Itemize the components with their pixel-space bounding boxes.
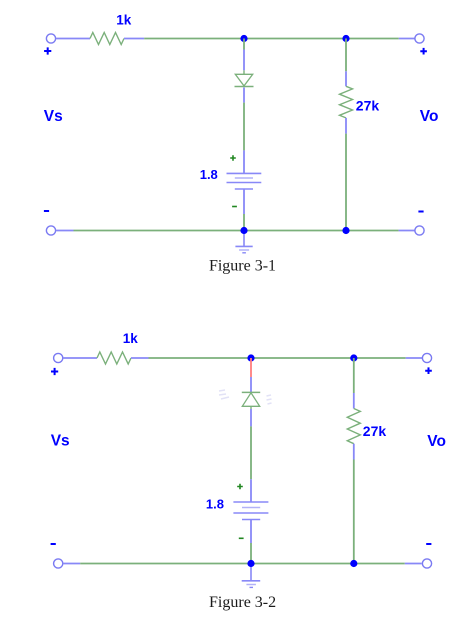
battery V1 plate 3 (long) — [227, 182, 262, 184]
terminal TR fig3-1 — [415, 34, 424, 43]
label + at TL terminal fig3-1 — [44, 47, 51, 54]
wire: TR terminal stub — [399, 38, 415, 40]
diode D2 anode stub — [250, 406, 252, 409]
resistor R2 27k body — [340, 86, 353, 118]
wire: D2 to V2 (green) — [250, 426, 252, 479]
label + at TR terminal fig3-1 — [420, 48, 427, 55]
terminal BL fig3-1 — [46, 226, 55, 235]
wire: bottom bus left — [74, 230, 245, 232]
node F (R4 junction) — [350, 354, 357, 361]
svg-text:Vo: Vo — [420, 108, 439, 125]
wire: TL terminal to R1 left lead — [56, 38, 90, 40]
wire: R2 bottom lead (blue) — [345, 118, 347, 134]
wire: D1 anode lead (blue) — [243, 50, 245, 71]
svg-text:Vs: Vs — [44, 108, 63, 125]
battery V2 plate 4 (short) — [242, 519, 260, 521]
svg-text:Vo: Vo — [427, 433, 446, 450]
wire: BL terminal stub fig3-2 — [63, 563, 80, 565]
svg-text:1.8: 1.8 — [206, 497, 224, 512]
label - at BR terminal fig3-2 — [426, 543, 431, 545]
wire: BR terminal stub fig3-2 — [405, 563, 422, 565]
wire: V2 top lead (blue) — [250, 479, 252, 502]
ground bar 2 fig3-2 — [246, 584, 256, 586]
svg-text:1.8: 1.8 — [200, 167, 218, 182]
terminal BR fig3-1 — [415, 226, 424, 235]
resistor R1 1k body — [90, 33, 124, 45]
node A (R1/D1 junction) — [240, 35, 247, 42]
resistor R3 1k body — [97, 352, 131, 364]
wire: V2 bottom lead (blue) — [250, 520, 252, 544]
wire: V1 to node D (green) — [243, 214, 245, 231]
ghost text right of D2 — [267, 395, 272, 404]
ground bar 2 fig3-1 — [239, 249, 249, 251]
battery V2 plate 1 (long) — [233, 501, 268, 503]
wire: node E to node F — [251, 357, 354, 359]
svg-text:Vs: Vs — [51, 433, 70, 450]
svg-text:27k: 27k — [363, 423, 387, 439]
wire: node F down (green) — [353, 358, 355, 393]
ground bar 3 fig3-2 — [250, 586, 254, 588]
resistor R4 27k body — [347, 409, 360, 444]
wire: node E down (red net) — [250, 358, 252, 377]
wire: R4 top lead (blue) — [353, 393, 355, 409]
wire: bottom bus mid fig3-2 — [251, 563, 354, 565]
terminal BL fig3-2 — [54, 559, 63, 568]
node G (R4/bottom bus junction) — [350, 560, 357, 567]
svg-text:Figure 3-2: Figure 3-2 — [209, 594, 276, 611]
wire: TL terminal to R3 left lead — [63, 357, 97, 359]
wire: D2 anode lead (blue) — [250, 409, 252, 426]
label - of battery V2 — [239, 537, 244, 539]
svg-text:1k: 1k — [123, 331, 139, 346]
svg-text:27k: 27k — [356, 97, 380, 113]
wire: V1 top lead (blue) — [243, 150, 245, 173]
diode D2 cathode bar — [242, 391, 260, 393]
wire: D1 cathode lead (blue) — [243, 88, 245, 103]
label - at BR terminal fig3-1 — [418, 211, 423, 213]
ground bar 1 fig3-1 — [235, 245, 252, 247]
wire: TR terminal stub fig3-2 — [406, 357, 423, 359]
battery V1 plate 1 (long) — [227, 172, 262, 174]
terminal BR fig3-2 — [422, 559, 431, 568]
wire: D2 cathode lead (blue) — [250, 377, 252, 392]
node E (R3/D2 junction) — [247, 354, 254, 361]
wire: bottom bus left fig3-2 — [80, 563, 251, 565]
battery V1 plate 4 (short) — [235, 188, 253, 190]
node H (V2/ground junction) — [247, 560, 254, 567]
label - at BL terminal fig3-2 — [51, 543, 56, 545]
label + of battery V1 — [230, 155, 236, 161]
wire: V1 bottom lead (blue) — [243, 189, 245, 214]
terminal TL fig3-2 — [54, 353, 63, 362]
wire: node F to TR terminal — [354, 357, 406, 359]
wire: node B to TR terminal — [346, 38, 399, 40]
ghost text left of D2 — [219, 390, 229, 399]
label + at TL terminal fig3-2 — [51, 368, 58, 375]
svg-text:1k: 1k — [116, 13, 132, 28]
wire: R2 to node C (green) — [345, 134, 347, 231]
wire: BL terminal stub — [56, 230, 74, 232]
wire: BR terminal stub — [399, 230, 415, 232]
ground bar 3 fig3-1 — [242, 252, 246, 254]
battery V2 plate 3 (long) — [233, 512, 268, 514]
terminal TL fig3-1 — [46, 34, 55, 43]
node D (V1/ground junction) — [240, 227, 247, 234]
wire: node A to node B — [244, 38, 346, 40]
label - of battery V1 — [232, 206, 237, 208]
battery V2 plate 2 (short) — [242, 507, 260, 509]
wire: R4 bottom lead (blue) — [353, 444, 355, 460]
label + of battery V2 — [237, 484, 243, 490]
battery V1 plate 2 (short) — [235, 177, 253, 179]
wire: D1 to V1 (green) — [243, 103, 245, 151]
wire: bottom bus mid — [244, 230, 346, 232]
node B (R2 junction) — [342, 35, 349, 42]
wire: R3 to node E — [149, 357, 252, 359]
wire: node B down (green) — [345, 39, 347, 72]
terminal TR fig3-2 — [422, 353, 431, 362]
wire: node A down (green) — [243, 39, 245, 50]
label + at TR terminal fig3-2 — [425, 367, 432, 374]
svg-text:Figure 3-1: Figure 3-1 — [209, 258, 276, 275]
wire: V2 to node H (green) — [250, 543, 252, 564]
diode D1 cathode bar — [235, 86, 254, 88]
wire: R2 top lead (blue) — [345, 71, 347, 86]
diode D2 triangle (pointing up) — [242, 393, 259, 407]
wire: R4 to node G (green) — [353, 460, 355, 564]
wire: R1 to node A — [144, 38, 244, 40]
node C (R2/bottom bus junction) — [342, 227, 349, 234]
wire: bottom bus right — [346, 230, 399, 232]
diode D1 triangle (pointing down) — [235, 74, 252, 86]
ground stem fig3-1 — [243, 234, 245, 246]
wire: R3 right lead — [131, 357, 149, 359]
label - at BL terminal fig3-1 — [44, 210, 49, 212]
wire: bottom bus right fig3-2 — [354, 563, 405, 565]
ground bar 1 fig3-2 — [242, 580, 261, 582]
diode D1 anode stub — [243, 70, 245, 74]
wire: R1 right lead — [124, 38, 144, 40]
ground stem fig3-2 — [250, 567, 252, 581]
